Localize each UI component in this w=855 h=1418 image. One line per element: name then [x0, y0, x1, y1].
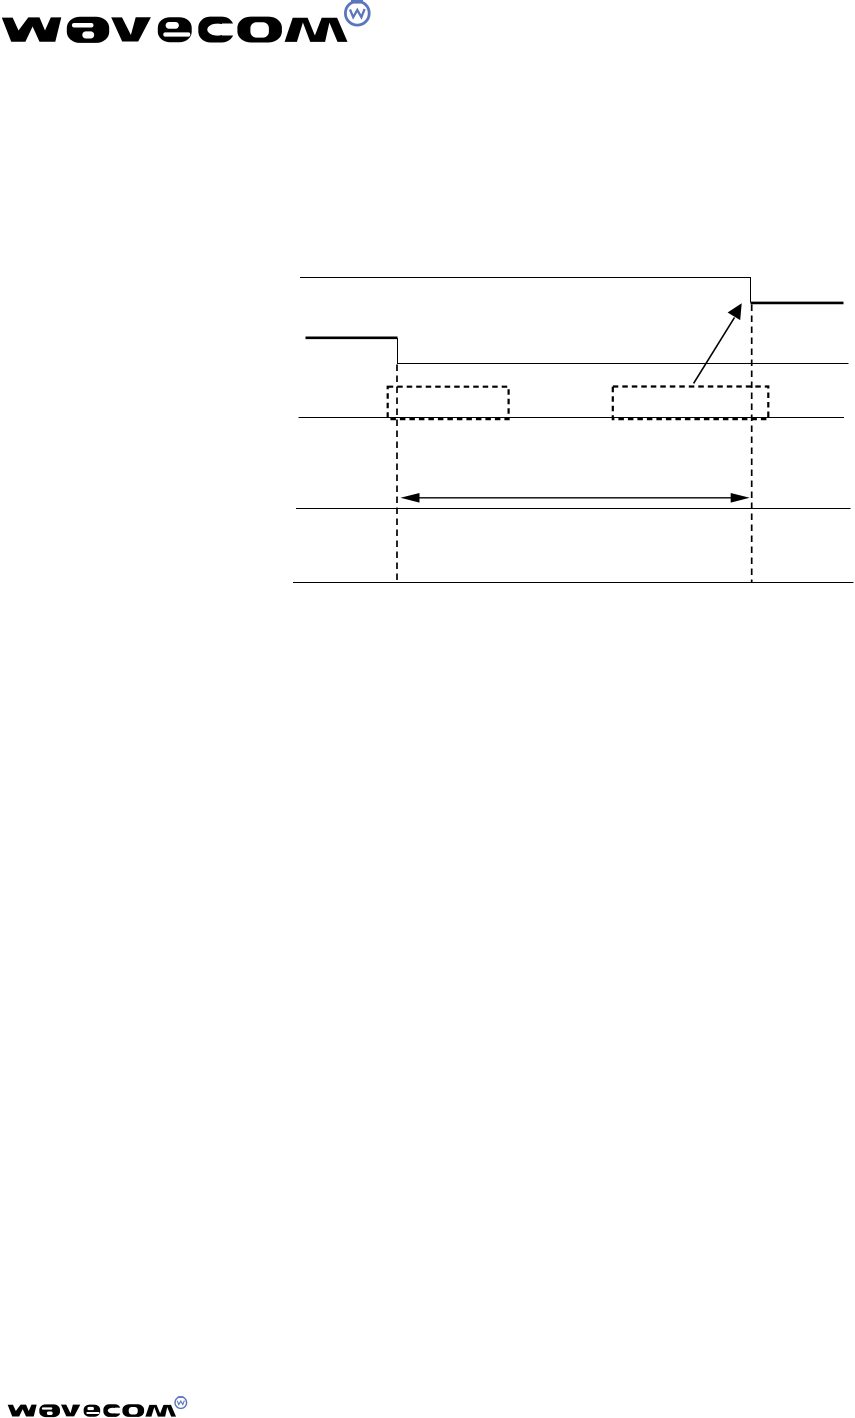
- wire: signal B falling edge: [397, 338, 399, 364]
- wire: signal D baseline: [296, 508, 851, 510]
- wire: signal E baseline: [293, 582, 854, 584]
- double-headed arrow shaft: [414, 497, 736, 499]
- wire: signal A high level: [300, 277, 751, 279]
- wire: signal C baseline: [299, 417, 845, 419]
- dashed box 2: [613, 387, 769, 420]
- wire: signal A falling edge: [750, 277, 752, 303]
- wire: signal B high level (thick): [306, 336, 398, 339]
- dashed vertical marker at A falling edge: [751, 305, 753, 583]
- double-headed arrow left head: [401, 493, 420, 503]
- double-headed arrow right head: [731, 493, 750, 503]
- dashed box 1: [388, 387, 509, 419]
- annotation arrow shaft: [694, 318, 735, 384]
- wire: signal B low level: [397, 363, 849, 365]
- logo: wavecom wordmark bottom-left: [8, 1396, 187, 1417]
- logo: wavecom wordmark top-left: [2, 0, 369, 43]
- dashed vertical marker at B falling edge: [396, 365, 398, 583]
- annotation arrow head: [728, 303, 742, 320]
- wire: signal A low level (thick): [751, 302, 844, 305]
